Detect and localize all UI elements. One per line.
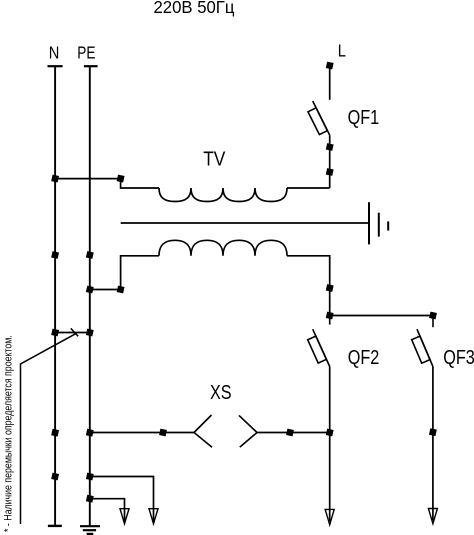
wire QF1 to TV primary <box>329 135 331 188</box>
node on PE mid upper <box>86 251 94 259</box>
wire QF3 to arrow D <box>432 367 434 521</box>
terminal L <box>326 62 334 70</box>
node below QF1 <box>326 143 334 151</box>
svg-text:* - Наличие перемычки определя: * - Наличие перемычки определяется проек… <box>2 335 14 532</box>
wire secondary left to PE <box>90 256 159 290</box>
node on PE <box>86 286 94 294</box>
svg-text:QF2: QF2 <box>348 345 380 368</box>
leader slash <box>71 328 78 336</box>
svg-text:N: N <box>49 43 60 63</box>
arrow D head <box>428 509 437 524</box>
node on N at branch B level <box>51 473 59 481</box>
node on XS wire left <box>159 429 167 437</box>
bus PE <box>84 66 98 526</box>
breaker QF3 <box>412 316 433 367</box>
ground right (screen earth) <box>369 202 388 244</box>
wire L to QF1 <box>329 66 331 100</box>
wire QF2 to XS junction <box>329 367 331 433</box>
node QF2 top junction <box>326 312 334 320</box>
node on PE at XS level <box>86 429 94 437</box>
wire to arrow C <box>329 433 331 522</box>
branch PE to arrow B <box>90 477 154 522</box>
transformer TV primary winding <box>159 188 287 202</box>
node on PE at branch B level <box>86 473 94 481</box>
connector XS plug <box>239 415 257 447</box>
wire XS to QF2 bottom <box>257 432 330 434</box>
node on N mid upper <box>51 251 59 259</box>
svg-text:XS: XS <box>210 380 232 403</box>
node jumper N <box>51 329 59 337</box>
jumper N-PE <box>55 332 90 334</box>
node corner <box>117 175 125 183</box>
node QF3 top <box>429 312 437 320</box>
breaker QF1 <box>308 101 330 135</box>
svg-text:QF1: QF1 <box>348 105 380 128</box>
wire primary to QF1 branch <box>287 187 330 189</box>
wire junction to QF3 top <box>330 315 433 317</box>
ground PE bottom <box>80 526 100 534</box>
wire PE to XS <box>90 432 194 434</box>
branch PE to arrow A <box>90 499 125 522</box>
node jumper PE <box>86 329 94 337</box>
node above TV primary <box>326 168 334 176</box>
svg-text:QF3: QF3 <box>443 345 474 368</box>
node on PE at branch A level <box>86 495 94 503</box>
transformer core screen <box>121 222 369 224</box>
leader line <box>21 334 76 524</box>
svg-text:L: L <box>338 41 346 61</box>
bus N <box>48 66 63 526</box>
node QF2 bottom junction <box>326 429 334 437</box>
node right branch <box>326 284 334 292</box>
wire N to TV primary <box>55 179 159 188</box>
node on QF3 wire <box>429 428 437 436</box>
svg-text:PE: PE <box>77 44 95 63</box>
node on XS wire right <box>286 429 294 437</box>
wire secondary right down <box>287 256 330 316</box>
breaker QF2 <box>308 316 330 367</box>
transformer TV secondary winding <box>159 240 287 256</box>
arrow C head <box>325 509 334 524</box>
node on N at XS level <box>51 429 59 437</box>
arrow A head <box>120 509 129 524</box>
svg-text:TV: TV <box>203 147 226 169</box>
arrow B head <box>149 509 158 524</box>
connector XS socket <box>194 415 212 447</box>
node on N <box>51 175 59 183</box>
svg-text:220В 50Гц: 220В 50Гц <box>154 0 235 17</box>
node secondary left corner <box>117 286 125 294</box>
